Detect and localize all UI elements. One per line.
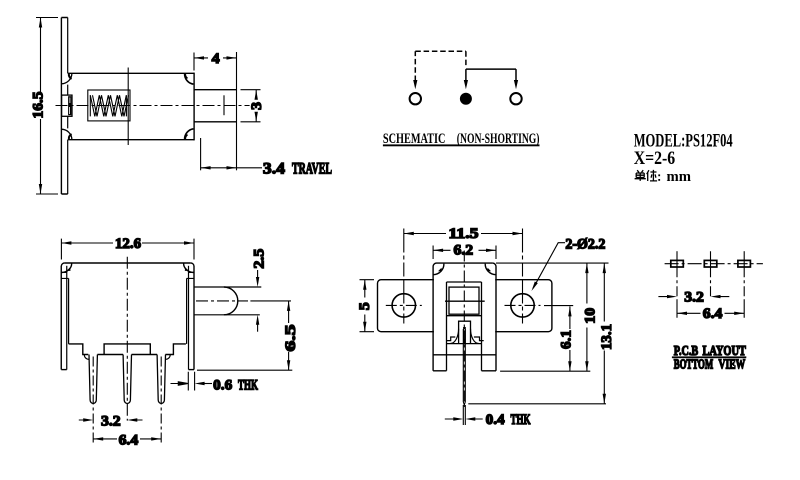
- plunger bottom edge: [194, 121, 237, 123]
- dim 6.5 arrows: [287, 301, 290, 370]
- plunger round cap: [224, 287, 238, 315]
- svg-text:10: 10: [583, 308, 599, 324]
- SIDE VIEW (top-left): [31, 18, 333, 195]
- body bend arc bottom-right: [185, 129, 194, 140]
- slot outer top/bottom: [447, 282, 482, 316]
- retaining tab plate section: [68, 96, 71, 115]
- body bend tick bottom-right: [185, 135, 187, 140]
- bottom profile left step: [69, 344, 89, 355]
- dim 6.4 line: [93, 438, 161, 440]
- solid wire to terminal 2: [465, 69, 467, 80]
- dim 3.2 line and arrows: [79, 419, 143, 421]
- dim 3 extension lines: [241, 90, 261, 122]
- pads horizontal centerline: [665, 263, 763, 265]
- arrow to terminal 3: [514, 80, 518, 89]
- travel dim line: [201, 167, 262, 169]
- needle tip: [463, 402, 465, 405]
- retaining tab left: [62, 95, 72, 116]
- body bend arc top-left inner: [69, 74, 72, 79]
- slot mid line: [445, 300, 485, 302]
- FRONT VIEW (bottom-left): [61, 236, 299, 448]
- left hole: [392, 294, 415, 317]
- crown cap rect: [459, 321, 471, 343]
- svg-text:TRAVEL: TRAVEL: [292, 161, 332, 178]
- plate bottom extension: [197, 369, 292, 371]
- dim 6.1 line: [569, 306, 571, 371]
- svg-text:6.1: 6.1: [559, 330, 575, 349]
- dim 16.5 arrows: [39, 18, 42, 195]
- right hole horizontal crosshair: [505, 304, 541, 306]
- plunger center extension: [250, 300, 291, 302]
- right body edge: [186, 278, 188, 344]
- MODEL text block (top-right): [634, 131, 733, 185]
- needle tip extension: [468, 403, 606, 405]
- dim 0.6 extension lines: [188, 372, 194, 391]
- svg-text:6.2: 6.2: [454, 243, 474, 259]
- dim 5 line: [364, 280, 366, 332]
- bottom profile right step: [165, 344, 186, 355]
- dim 0.6 arrows: [171, 382, 189, 385]
- svg-text:4: 4: [212, 51, 221, 67]
- svg-text:3.4: 3.4: [263, 161, 285, 178]
- needle sides: [463, 329, 465, 402]
- pin 1 centerline: [92, 357, 94, 444]
- column bend wedge left: [438, 268, 442, 272]
- horizontal centerline: [56, 105, 250, 107]
- column bend wedge right: [487, 268, 491, 272]
- crown base line: [447, 343, 482, 345]
- right hole: [511, 294, 534, 317]
- dim 16.5 line: [36, 18, 58, 195]
- dim 3 arrows: [255, 90, 258, 122]
- column bend arc right: [485, 264, 496, 275]
- body bend arc top-left outer: [61, 73, 72, 84]
- dim 3.2 arrows: [658, 296, 729, 298]
- dim 6.4 line: [677, 312, 744, 314]
- dashed path horizontal top: [415, 50, 466, 52]
- mounting plate left edge: [60, 18, 62, 195]
- crown left step: [447, 337, 456, 341]
- SCHEMATIC (top-middle): [383, 51, 540, 147]
- hole label arrow: [532, 282, 538, 292]
- dim 11.5 line: [404, 233, 523, 235]
- right hole vertical centerline/extension: [522, 229, 524, 324]
- dim 4 line: [194, 57, 237, 59]
- plunger centerline: [196, 300, 248, 302]
- dashed path vertical left: [414, 51, 416, 81]
- pad 3: [738, 260, 751, 267]
- crown left bell arc: [451, 329, 459, 344]
- arrow to terminal 1: [413, 80, 417, 89]
- dim 2.5 lower arrow: [256, 315, 259, 325]
- terminal 3 circle: [510, 93, 521, 104]
- top edge extension: [496, 262, 609, 264]
- svg-text:THK: THK: [238, 378, 258, 394]
- bottom extension: [500, 370, 590, 372]
- switch body top edge: [68, 72, 194, 74]
- solid wire horizontal: [466, 68, 516, 70]
- mounting plate top and bottom edges: [61, 18, 67, 195]
- svg-text:BOTTOM: BOTTOM: [674, 357, 714, 372]
- column lower line: [433, 354, 496, 356]
- dim 2.5 leader and arrow: [257, 270, 259, 278]
- dim 4 extension lines: [193, 53, 195, 71]
- pin 3 shoulder arc: [165, 355, 170, 360]
- dim 5 extension lines: [360, 280, 375, 332]
- left hole horizontal crosshair: [386, 304, 422, 306]
- dim 6.2 extension lines: [433, 246, 496, 260]
- dim 4 arrows: [194, 56, 237, 59]
- svg-text:0.6: 0.6: [213, 378, 232, 394]
- right plate ticks: [187, 272, 194, 278]
- column corner arc right: [493, 263, 496, 266]
- dim 12.6 arrows: [61, 241, 194, 244]
- dim 0.4 arrows: [445, 418, 483, 420]
- bottom center block: [104, 344, 150, 355]
- hole label leader: [533, 243, 565, 289]
- pad 3 vertical centerline: [743, 251, 745, 318]
- dim 3 line: [255, 90, 257, 122]
- plunger top edge with extension: [194, 286, 261, 288]
- svg-text:11.5: 11.5: [449, 226, 479, 242]
- travel arrows: [201, 166, 237, 169]
- svg-text:6.4: 6.4: [119, 432, 139, 448]
- spring housing box: [88, 90, 130, 121]
- pad 2: [704, 260, 717, 267]
- body top-left corner arc: [61, 263, 64, 266]
- column top edge: [437, 262, 493, 264]
- body bend arc top-right: [185, 74, 194, 85]
- mounting ears plate: [378, 280, 552, 332]
- svg-text:0.4: 0.4: [486, 412, 505, 428]
- pad 2 vertical centerline: [710, 251, 712, 298]
- left body edge: [68, 278, 70, 344]
- arrow to terminal 2: [464, 80, 468, 89]
- body bend arc bottom-left outer: [61, 129, 72, 140]
- column left edge: [432, 267, 434, 371]
- dim 6.2 arrows: [433, 249, 496, 252]
- svg-text:13.1: 13.1: [599, 324, 615, 350]
- slot outer left/right: [447, 282, 482, 371]
- crown needle band: [463, 327, 466, 344]
- svg-text:16.5: 16.5: [31, 92, 47, 119]
- dim 6.2 line: [433, 249, 496, 251]
- pcb layout underline: [672, 356, 746, 358]
- svg-text:THK: THK: [511, 412, 531, 428]
- left plate outer edge: [60, 266, 62, 370]
- pin 3 centerline: [160, 357, 162, 444]
- pin 1: [89, 355, 97, 404]
- pad 1: [671, 260, 684, 267]
- body vertical centerline: [126, 257, 128, 421]
- dim 6.1 arrows: [568, 306, 571, 371]
- svg-text:2.5: 2.5: [251, 249, 267, 269]
- plunger right edge: [236, 52, 238, 170]
- body top-right corner arc: [191, 263, 194, 266]
- plunger bottom edge with extension: [194, 314, 260, 316]
- right hole center extension: [544, 305, 573, 307]
- unit label glyph dan: [635, 170, 646, 181]
- right plate outer edge: [193, 266, 195, 370]
- svg-text:X=2-6: X=2-6: [634, 149, 676, 169]
- mounting plate right edge segments: [67, 18, 69, 195]
- spring end lines: [90, 95, 126, 116]
- svg-text:2-Ø2.2: 2-Ø2.2: [565, 237, 605, 253]
- svg-text:3: 3: [249, 102, 265, 110]
- TOP VIEW (bottom-middle): [357, 226, 615, 428]
- right bend arc: [184, 263, 194, 272]
- terminal 2 circle (common, filled): [460, 93, 472, 105]
- pad 1 vertical centerline: [676, 251, 678, 318]
- svg-text:mm: mm: [667, 169, 692, 185]
- dim 10 line: [586, 263, 588, 371]
- crown right bell arc: [471, 329, 479, 344]
- column bend arc left: [433, 264, 444, 275]
- dim 12.6 extension lines: [61, 239, 194, 260]
- column white mask: [434, 264, 495, 370]
- column right edge: [495, 267, 497, 371]
- dim 5 arrows: [363, 280, 366, 332]
- svg-text:6.5: 6.5: [283, 325, 299, 352]
- switch body bottom edge: [68, 139, 194, 141]
- schematic title underline: [383, 144, 540, 146]
- left bend arc: [61, 263, 71, 272]
- dim 6.4 arrows: [677, 312, 744, 315]
- right bend wedge: [185, 267, 189, 271]
- left bend wedge: [67, 267, 71, 271]
- switch body right edge: [193, 73, 195, 141]
- right plate bottom: [189, 369, 195, 371]
- pin 2: [123, 355, 131, 404]
- section line vertical: [127, 68, 129, 146]
- dim 0.4 extension lines: [463, 405, 465, 425]
- center vertical dash-dot: [463, 251, 465, 408]
- dim 6.5 line: [288, 301, 290, 370]
- bottom profile middle segments: [97, 354, 157, 356]
- pin 3: [157, 355, 165, 404]
- terminal 1 circle: [410, 93, 421, 104]
- left plate ticks: [61, 272, 68, 278]
- left plate bottom: [61, 369, 67, 371]
- plunger center tick: [223, 95, 225, 115]
- svg-text:3.2: 3.2: [101, 413, 121, 429]
- svg-text:5: 5: [357, 302, 373, 310]
- column bottom edges: [433, 370, 496, 372]
- unit label glyph wei: [647, 170, 657, 181]
- dashed path vertical middle: [465, 51, 467, 66]
- dim 12.6 line: [61, 242, 194, 244]
- solid wire to terminal 3: [515, 69, 517, 80]
- left plate inner edge: [66, 266, 68, 370]
- dim 13.1 arrows: [603, 263, 606, 404]
- left hole vertical centerline/extension: [403, 229, 405, 324]
- dim 13.1 line: [603, 263, 605, 404]
- dim 11.5 arrows: [404, 232, 523, 235]
- svg-text:3.2: 3.2: [684, 290, 704, 306]
- body top edge: [65, 262, 191, 264]
- travel extension line: [200, 138, 202, 170]
- dim 10 arrows: [585, 263, 588, 371]
- crown right step: [474, 337, 484, 341]
- column corner arc left: [433, 263, 436, 266]
- body bend tick top-right: [185, 74, 187, 79]
- body bend arc bottom-left inner: [69, 134, 72, 139]
- svg-text:VIEW: VIEW: [719, 357, 746, 372]
- plunger top edge: [194, 89, 237, 91]
- svg-text:6.4: 6.4: [703, 306, 723, 322]
- pin 1 shoulder arc: [84, 355, 89, 360]
- dim 6.4 arrows: [93, 437, 161, 440]
- svg-text:12.6: 12.6: [115, 236, 141, 252]
- unit colon: [658, 174, 660, 176]
- spring coil: [90, 95, 126, 116]
- right plate inner edge: [188, 266, 190, 370]
- slot inner rect: [449, 287, 479, 314]
- PCB LAYOUT (bottom-right): [658, 251, 763, 372]
